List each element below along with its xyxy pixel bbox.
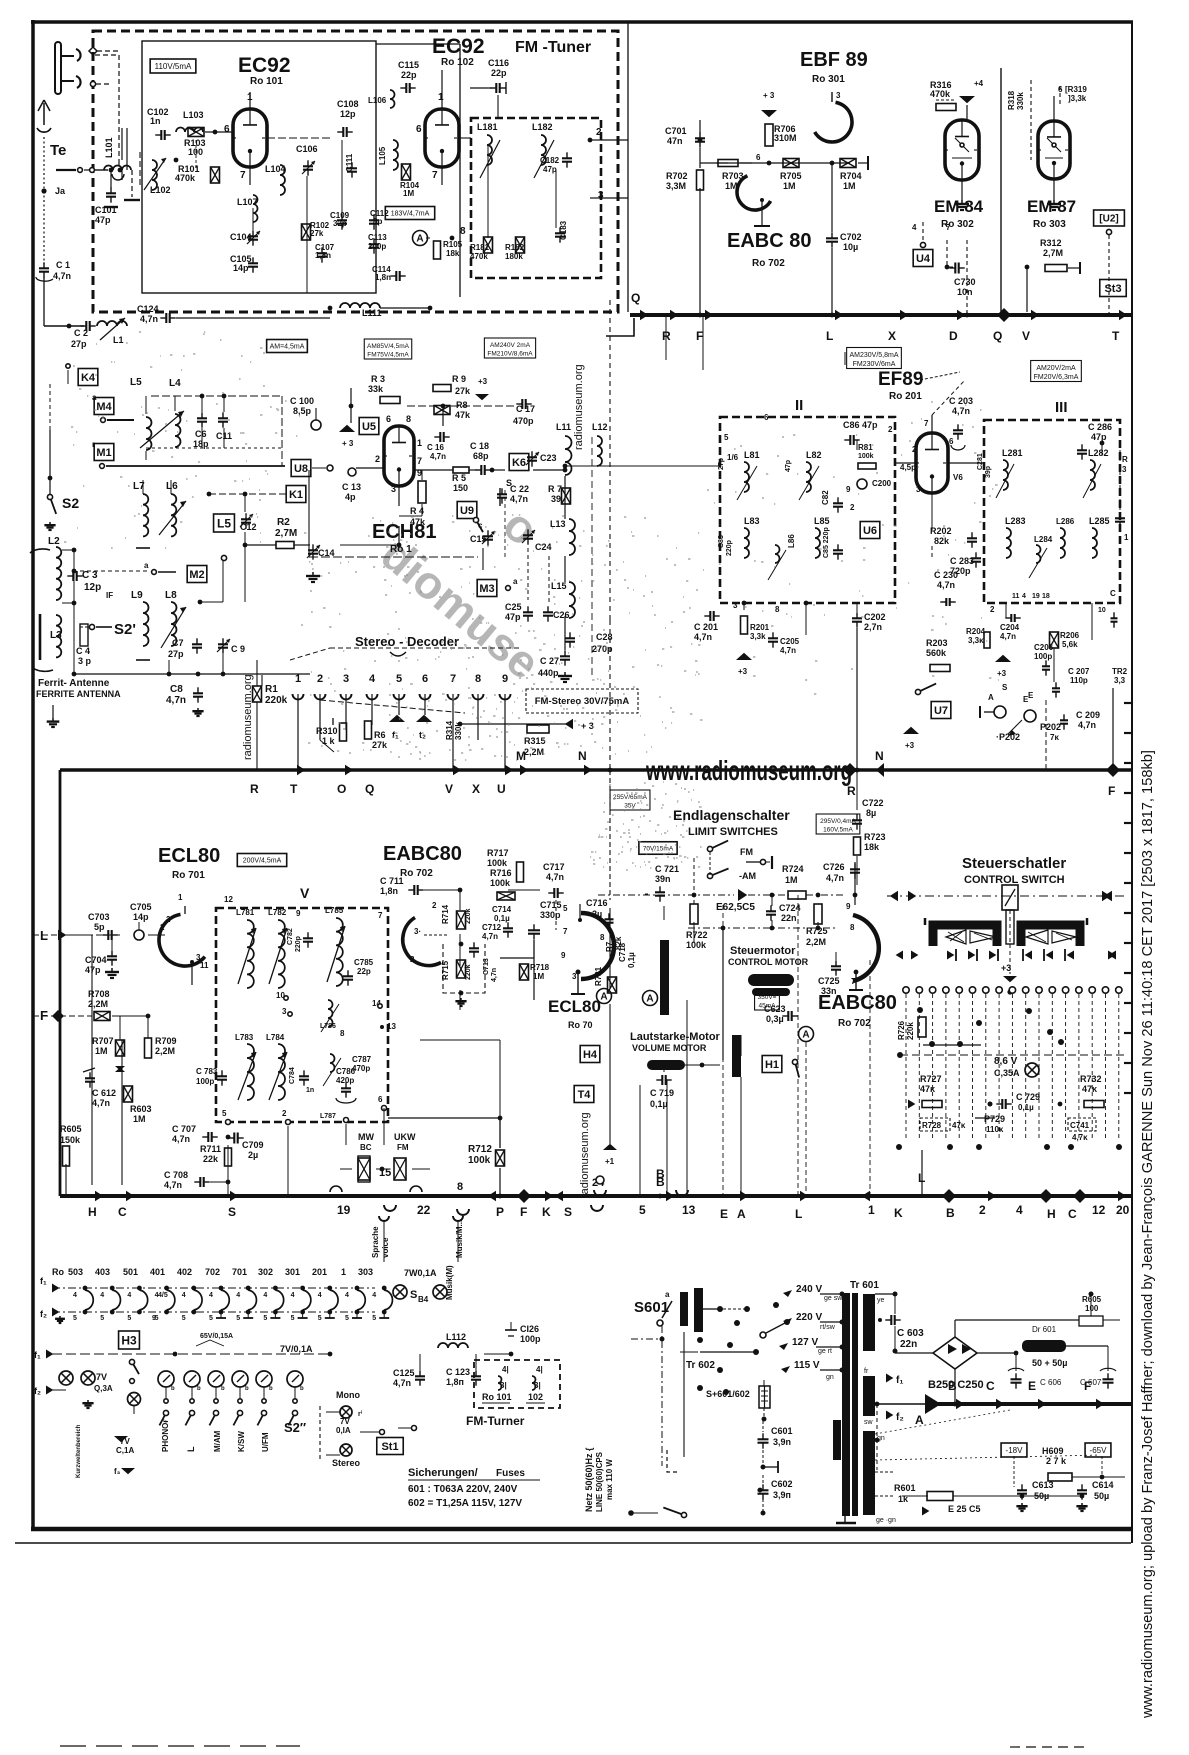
dotted lines winding [875, 1410, 1100, 1460]
svg-text:3: 3 [391, 484, 396, 494]
svg-text:P729: P729 [984, 1114, 1005, 1124]
svg-text:4: 4 [209, 1292, 213, 1299]
label Tr 601 [850, 1280, 879, 1291]
cap C714 0.1u [492, 905, 513, 938]
svg-text:12p: 12p [340, 109, 356, 119]
svg-text:C111: C111 [345, 153, 354, 172]
vertical drops decoder [320, 715, 478, 770]
coil L282 [1083, 448, 1109, 498]
resistor R206 5.6k [1050, 631, 1080, 649]
decoder pin 1 [293, 673, 304, 770]
svg-text:M3: M3 [479, 583, 494, 595]
gnd f2 row [82, 1400, 93, 1408]
cap C787 470p [336, 1055, 372, 1103]
coil L106 [368, 90, 395, 108]
svg-text:R206: R206 [1060, 631, 1080, 640]
svg-text:6: 6 [386, 414, 391, 424]
left mid wires [171, 494, 262, 686]
tube ECH81 [384, 426, 414, 486]
svg-text:L3: L3 [50, 630, 62, 641]
svg-text:S: S [564, 1205, 572, 1219]
svg-text:330p: 330p [540, 910, 561, 920]
trim cap C104 [230, 230, 260, 245]
svg-text:R310: R310 [316, 726, 338, 736]
svg-text:Ja: Ja [55, 186, 66, 196]
svg-text:4,7n: 4,7n [491, 968, 498, 982]
svg-text:L: L [826, 329, 833, 343]
svg-text:EABC80: EABC80 [818, 992, 897, 1014]
conn 15 [379, 1167, 391, 1179]
tube EM84 [945, 120, 979, 180]
label S601 [634, 1299, 672, 1318]
svg-text:4/5: 4/5 [158, 1292, 168, 1299]
svg-text:183V/4,7mA: 183V/4,7mA [391, 211, 430, 218]
cap C111 [345, 153, 357, 177]
cap C784 1n [289, 1067, 314, 1094]
svg-text:+4: +4 [974, 79, 984, 88]
svg-text:FM: FM [740, 847, 753, 857]
svg-text:M2: M2 [189, 569, 204, 581]
svg-text:10n: 10n [957, 287, 973, 297]
svg-text:C 9: C 9 [231, 644, 245, 654]
label EABC80 lower [818, 992, 897, 1029]
svg-text:[R319: [R319 [1065, 85, 1087, 94]
choke Dr601 [1022, 1325, 1066, 1352]
Tr601 secondary winding 1 [863, 1294, 885, 1351]
svg-text:CONTROL MOTOR: CONTROL MOTOR [728, 957, 809, 967]
svg-text:U5: U5 [362, 421, 376, 433]
switch column small [114, 1359, 141, 1442]
boxed 350V 45mA [755, 990, 780, 1010]
svg-text:R203: R203 [926, 638, 948, 648]
svg-text:C716: C716 [586, 898, 608, 908]
svg-text:[U2]: [U2] [1099, 214, 1118, 225]
svg-text:L112: L112 [446, 1332, 466, 1342]
grid wire EBF89 [698, 138, 850, 166]
svg-text:27k: 27k [372, 740, 388, 750]
svg-text:rt/sw: rt/sw [820, 1324, 836, 1331]
pin 8 node [450, 226, 466, 240]
svg-text:9: 9 [846, 902, 851, 911]
svg-text:7W0,1A: 7W0,1A [404, 1268, 437, 1278]
trim arrow L4L5 [140, 411, 184, 448]
wire right col drop [1046, 688, 1113, 770]
svg-text:C 100: C 100 [290, 396, 314, 406]
pin 7 EC92 V1 [240, 167, 250, 185]
resistor R204 3.3k [966, 627, 990, 648]
svg-text:R315: R315 [524, 736, 546, 746]
coil L5 [130, 377, 152, 450]
svg-text:1M: 1M [403, 189, 414, 198]
svg-text:C722: C722 [862, 798, 884, 808]
ferrite rod [30, 549, 53, 671]
cap C203 4.7n [727, 396, 973, 462]
svg-text:·P202: ·P202 [996, 732, 1020, 742]
cap C27 440p [538, 650, 572, 682]
switch S2prime [80, 621, 136, 638]
svg-text:1M: 1M [843, 181, 856, 191]
svg-text:R715: R715 [441, 960, 450, 980]
svg-text:C23: C23 [540, 453, 557, 463]
svg-text:47p: 47p [95, 215, 111, 225]
svg-text:403: 403 [95, 1267, 110, 1277]
svg-text:R727: R727 [920, 1074, 942, 1084]
svg-text:S: S [1002, 683, 1008, 692]
switch S601 ring [657, 1290, 670, 1326]
separator line tuner/right [627, 22, 629, 312]
svg-text:R724: R724 [782, 864, 804, 874]
tiny vert label kurz [76, 1424, 82, 1478]
svg-text:0,ΙA: 0,ΙA [336, 1426, 351, 1435]
right border connector ticks [1124, 703, 1133, 1093]
label Lv [186, 1446, 196, 1452]
svg-text:100: 100 [188, 147, 203, 157]
cap C100 8.5p [290, 396, 321, 430]
svg-text:M: M [516, 749, 526, 763]
boxed label 295V [816, 814, 860, 834]
resistor R310 1k [316, 718, 347, 752]
svg-text:L785: L785 [325, 906, 344, 915]
cap C105 14p [230, 254, 258, 273]
resistor R726 220k [897, 1007, 1125, 1058]
svg-text:L182: L182 [532, 122, 553, 132]
pin 7 [378, 911, 383, 920]
limit switch FM [707, 841, 772, 869]
lower bus label E [720, 1207, 728, 1221]
svg-text:C 1: C 1 [56, 260, 70, 270]
svg-text:C202: C202 [864, 612, 886, 622]
resistor R318 330k [1007, 80, 1031, 160]
cap C113 200p [368, 233, 387, 254]
svg-text:5: 5 [318, 1315, 322, 1322]
bus label T [1112, 329, 1120, 343]
label Endlagenschalter [673, 807, 790, 823]
power wires [875, 1320, 1125, 1498]
svg-text:-18V: -18V [1006, 1446, 1024, 1455]
tube EM84 deflection [952, 138, 972, 158]
switch UKW FM [394, 1132, 416, 1180]
anode supply bus (top right) [630, 313, 1133, 317]
svg-text:+3: +3 [997, 669, 1007, 678]
svg-text:S+601/602: S+601/602 [706, 1389, 750, 1399]
coil L82 [785, 450, 822, 500]
svg-text:8p: 8p [373, 217, 382, 226]
svg-text:AM85V/4,5mA: AM85V/4,5mA [367, 343, 410, 350]
arrow antenna input [37, 55, 119, 264]
label S2sw [284, 1420, 306, 1435]
cap C718 0.1u [618, 942, 636, 968]
pin7 EF89 [912, 419, 963, 494]
tube EF89 [916, 433, 948, 493]
pot P729 110k [975, 1114, 1005, 1134]
switch H1 [792, 1059, 799, 1077]
svg-text:6: 6 [764, 413, 769, 422]
cap C8 4.7n [166, 684, 204, 716]
svg-text:50µ: 50µ [1094, 1491, 1109, 1501]
wires IF det to audio [388, 1116, 502, 1148]
pins 4 3 [498, 1365, 543, 1390]
resistor R724 1M [782, 864, 806, 899]
cap C200 4.5p [857, 463, 916, 489]
svg-text:A: A [600, 992, 607, 1003]
row1 f1 wire [40, 1276, 375, 1293]
label Sicherungen [408, 1467, 540, 1480]
svg-text:4,7n: 4,7n [780, 646, 796, 655]
svg-text:BC: BC [360, 1143, 372, 1152]
pin 6 [378, 1095, 387, 1111]
svg-text:www.radiomuseum.org; upload by: www.radiomuseum.org; upload by Franz-Jos… [1139, 750, 1156, 1719]
coil L15 [551, 581, 575, 618]
wire Q out [606, 318, 634, 336]
pin 13 [380, 1022, 396, 1031]
transformer Tr601 core [842, 1293, 858, 1516]
svg-text:1n: 1n [150, 116, 161, 126]
cap C712 4.7n [469, 923, 502, 958]
svg-text:Q: Q [631, 291, 640, 305]
svg-text:FM210V/8,6mA: FM210V/8,6mA [487, 351, 533, 358]
svg-text:R722: R722 [686, 930, 708, 940]
svg-text:220p: 220p [295, 936, 302, 952]
svg-text:L86: L86 [787, 534, 796, 548]
resistor R181 470k [470, 237, 493, 261]
label fuse 602 [408, 1498, 522, 1509]
cap C724 22n [766, 903, 801, 923]
svg-text:R707: R707 [92, 1036, 114, 1046]
cap C86 47p [843, 420, 878, 445]
cap C782 220p [287, 928, 313, 952]
svg-text:C 201: C 201 [694, 622, 718, 632]
coil L111 [340, 303, 382, 318]
cap C601 3.9n [758, 1421, 793, 1449]
svg-text:5: 5 [563, 904, 568, 913]
svg-text:C6: C6 [195, 429, 207, 439]
svg-text:L105: L105 [378, 146, 387, 165]
wire from II to III [895, 462, 984, 464]
tube EBF89 partial [815, 91, 852, 142]
svg-text:R318: R318 [1007, 90, 1016, 110]
svg-text:C25: C25 [505, 602, 522, 612]
svg-text:3: 3 [733, 601, 738, 610]
cap C201 4.7n [694, 611, 720, 642]
svg-text:5: 5 [127, 1315, 131, 1322]
svg-text:ye: ye [877, 1297, 885, 1304]
svg-text:35V: 35V [624, 803, 636, 810]
svg-text:Ro 701: Ro 701 [172, 870, 205, 881]
svg-text:4,7n: 4,7n [952, 406, 970, 416]
circled A q [597, 989, 612, 1004]
svg-text:560k: 560k [926, 648, 947, 658]
svg-text:8: 8 [340, 1029, 345, 1038]
resistor R2 2.7M [275, 517, 297, 549]
svg-text:B: B [946, 1206, 955, 1220]
label L above bus [918, 1150, 925, 1196]
svg-text:LINE 50(60)CPS: LINE 50(60)CPS [595, 1451, 604, 1512]
svg-text:100p: 100p [196, 1077, 214, 1086]
motor volume [647, 1060, 685, 1070]
decoder pin 3 [341, 673, 352, 730]
wire EM84 anode [955, 105, 969, 210]
svg-text:FM-Turner: FM-Turner [466, 1414, 525, 1428]
tube EM87 [1038, 121, 1070, 179]
resistor R732 47k [1080, 1074, 1104, 1108]
lamp row mid [158, 1371, 304, 1392]
osc wires [309, 388, 567, 650]
svg-text:13: 13 [387, 1022, 396, 1031]
label S small [1002, 683, 1034, 700]
wires bottom tuner [176, 306, 432, 318]
supply wire EM87 [1054, 85, 1063, 121]
junction dots control [896, 1102, 1122, 1150]
outer frame right border [1131, 22, 1133, 1543]
coil L103 [176, 110, 204, 132]
supply tri stereo [458, 719, 594, 731]
lower bus label B [946, 1206, 955, 1220]
trim C9 [217, 638, 245, 654]
coil L784 [266, 1033, 287, 1100]
svg-text:Tr 601: Tr 601 [850, 1280, 879, 1291]
resistor R702 3.3M [666, 148, 704, 191]
svg-text:VOLUME MOTOR: VOLUME MOTOR [632, 1043, 707, 1053]
IF transformer dashed box (ratio det) [216, 908, 388, 1122]
svg-text:C 721: C 721 [655, 864, 679, 874]
bridge rectifier B250 [895, 1337, 1016, 1369]
label Steuermotor [728, 945, 809, 967]
tube label EBF 89 [800, 49, 868, 85]
cap C715 330p [528, 900, 562, 958]
svg-text:K: K [894, 1206, 903, 1220]
cap C709 2u [228, 1133, 263, 1161]
svg-text:R201: R201 [750, 623, 770, 632]
svg-text:R81: R81 [858, 443, 873, 452]
cap C783 100p [196, 1067, 227, 1086]
svg-text:50 + 50µ: 50 + 50µ [1032, 1358, 1067, 1368]
svg-text:5: 5 [291, 1315, 295, 1322]
svg-text:39n: 39n [655, 874, 671, 884]
svg-text:R181: R181 [470, 243, 490, 252]
svg-text:82k: 82k [934, 536, 950, 546]
svg-text:ge sw: ge sw [824, 1295, 843, 1302]
label N bus [578, 749, 587, 763]
resistor R81 100k [858, 443, 876, 469]
svg-text:100: 100 [1085, 1304, 1099, 1313]
coil L107 [237, 195, 258, 222]
svg-text:2,2M: 2,2M [524, 747, 544, 757]
coil L283 [1005, 516, 1026, 558]
svg-text:C83: C83 [718, 535, 725, 548]
svg-text:C623: C623 [764, 1004, 786, 1014]
label M bus [516, 749, 526, 763]
trim arrow L6 [159, 501, 186, 535]
svg-text:C601: C601 [771, 1426, 793, 1436]
svg-text:8: 8 [460, 226, 466, 237]
svg-text:FERRITE ANTENNA: FERRITE ANTENNA [36, 689, 121, 699]
svg-text:6: 6 [949, 437, 954, 446]
resistor R707 1M [92, 1036, 125, 1072]
coil L101 [104, 137, 131, 180]
svg-text:4,7n: 4,7n [694, 632, 712, 642]
svg-text:4: 4 [345, 1292, 349, 1299]
sprache vertical [371, 1216, 390, 1262]
lamp 7V row [59, 1371, 113, 1393]
svg-text:330k: 330k [1016, 92, 1025, 110]
label Lautstarke-Motor [630, 1031, 721, 1053]
cap C230 4.7n [934, 570, 958, 606]
svg-text:22: 22 [417, 1203, 431, 1217]
svg-text:V: V [300, 885, 310, 901]
svg-text:2: 2 [166, 915, 171, 924]
svg-text:2: 2 [888, 425, 893, 434]
svg-text:R728: R728 [922, 1121, 942, 1130]
svg-text:100k: 100k [858, 453, 874, 460]
transformer Tr602 bars [680, 1288, 703, 1332]
svg-text:402: 402 [177, 1267, 192, 1277]
vertical watermark tuner [573, 364, 585, 450]
svg-text:voice: voice [381, 1237, 390, 1258]
svg-text:f₂: f₂ [896, 1412, 904, 1423]
outer frame left border [31, 20, 35, 1530]
svg-text:II: II [795, 397, 803, 414]
trim arrow L8 [161, 607, 186, 648]
label Te [50, 142, 66, 159]
svg-text:7κ: 7κ [1050, 733, 1059, 742]
svg-text:R601: R601 [894, 1483, 916, 1493]
svg-text:L8: L8 [165, 590, 177, 601]
svg-text:2µ: 2µ [592, 909, 602, 919]
wire EBF anode [831, 248, 833, 315]
svg-text:C204: C204 [1000, 623, 1020, 632]
svg-text:R717: R717 [487, 848, 509, 858]
label 115V [781, 1360, 834, 1381]
svg-text:0,1µ: 0,1µ [627, 952, 636, 968]
coil L787 lower [323, 1054, 356, 1086]
svg-text:5,6k: 5,6k [1062, 640, 1078, 649]
bottom margin line [15, 1542, 1131, 1544]
coil L783 [235, 1033, 256, 1100]
svg-text:4: 4 [263, 1292, 267, 1299]
svg-text:C: C [118, 1205, 127, 1219]
resistor R605b [1079, 1292, 1103, 1327]
cap C14 [306, 544, 335, 582]
svg-text:R: R [1122, 455, 1128, 464]
svg-text:C613: C613 [1032, 1480, 1054, 1490]
svg-text:65V/0,15A: 65V/0,15A [200, 1333, 233, 1340]
svg-text:1M: 1M [133, 1114, 146, 1124]
resistor R714 220k [441, 904, 472, 929]
svg-text:2,7M: 2,7M [275, 528, 297, 539]
svg-text:301: 301 [285, 1267, 300, 1277]
svg-text:gn: gn [826, 1374, 834, 1381]
wire lower left drops [122, 985, 241, 1196]
resistor R727 47k [908, 1074, 942, 1109]
svg-text:0,3µ: 0,3µ [766, 1014, 784, 1024]
conn 8b [0, 0, 1, 1]
svg-text:4: 4 [318, 1292, 322, 1299]
tap wires [816, 1292, 845, 1373]
bracket left black [933, 925, 997, 946]
svg-text:2,2M: 2,2M [155, 1046, 175, 1056]
svg-text:U: U [497, 782, 506, 796]
coil L11 [556, 422, 572, 475]
svg-text:303: 303 [358, 1267, 373, 1277]
bus label R [662, 329, 671, 343]
cap C6 18p [193, 412, 209, 449]
svg-text:4: 4 [369, 673, 376, 685]
svg-text:f₁: f₁ [40, 1276, 47, 1286]
label 220V [783, 1312, 836, 1331]
cap C614 50u [1076, 1480, 1113, 1511]
boxed current label 110V/5mA [150, 59, 196, 73]
resistor R101 470k [175, 164, 220, 183]
